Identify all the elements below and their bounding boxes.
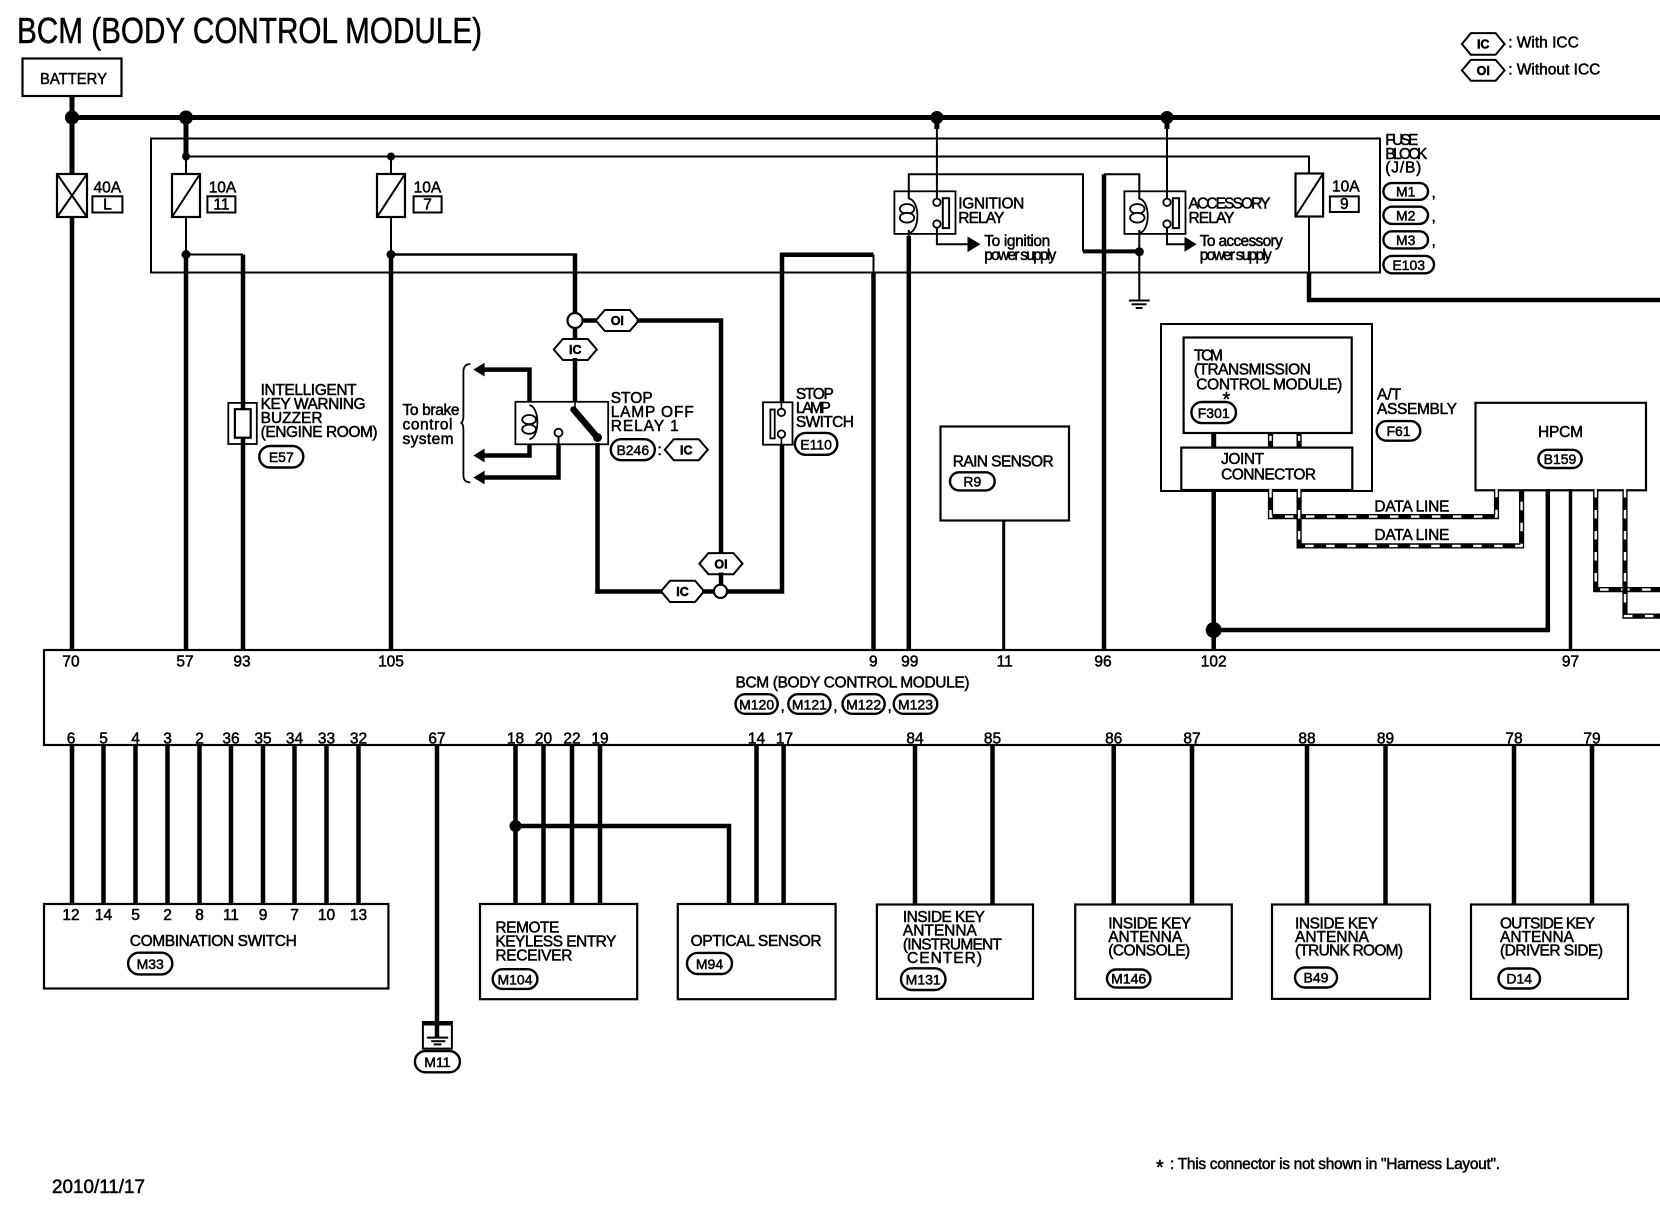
relay contact arm B246	[555, 402, 603, 444]
hexagon OI bottom	[699, 553, 742, 574]
svg-text:9: 9	[869, 654, 878, 671]
label 40A L	[92, 180, 122, 214]
hexagon IC at B246	[665, 439, 708, 460]
outside key antenna driver side box	[1471, 905, 1628, 999]
wire OI bypass down	[637, 321, 722, 555]
accessory relay	[1124, 191, 1185, 234]
wire ignition contact to arrow	[937, 228, 968, 245]
svg-text:2: 2	[163, 907, 172, 924]
wire BCM pin 78	[1512, 745, 1517, 905]
svg-text:9: 9	[1340, 196, 1349, 213]
data line JC to HPCM 2	[1299, 489, 1522, 546]
wire BCM pin 36	[229, 745, 234, 905]
svg-text:power supply: power supply	[1200, 247, 1272, 264]
wire relay coil bottom to brake arrow 2	[484, 444, 530, 455]
wire BCM pin 79	[1590, 745, 1595, 905]
svg-text:,: ,	[1432, 185, 1436, 202]
svg-text:7: 7	[290, 907, 299, 924]
connector M104	[493, 969, 538, 989]
brace to brake control system	[460, 364, 470, 482]
svg-text:,: ,	[1432, 209, 1436, 226]
label IGNITION RELAY	[958, 196, 1024, 227]
junction dot battery bus	[65, 111, 79, 125]
svg-text:36: 36	[222, 730, 239, 747]
svg-text:70: 70	[62, 654, 80, 671]
svg-text:,: ,	[888, 698, 892, 715]
svg-text:COMBINATION SWITCH: COMBINATION SWITCH	[130, 933, 297, 950]
svg-text:5: 5	[131, 907, 140, 924]
wire branch to optical sensor	[516, 826, 730, 905]
wire BCM pin 4	[133, 745, 138, 905]
wire bus to ignition relay contact	[934, 118, 939, 130]
svg-text:R9: R9	[963, 473, 981, 489]
data line stub TCM to JC 2	[1296, 433, 1301, 448]
svg-text:DATA LINE: DATA LINE	[1374, 499, 1449, 516]
wire HPCM to BCM pin 97	[1569, 489, 1573, 651]
svg-text:67: 67	[428, 730, 445, 747]
svg-text:4: 4	[131, 730, 140, 747]
label inside key antenna console	[1108, 916, 1191, 960]
svg-text:3: 3	[163, 730, 172, 747]
svg-text:D14: D14	[1506, 971, 1532, 987]
wire stop lamp switch top to pin 9 rail	[782, 255, 874, 403]
wire BCM pin 3	[165, 745, 170, 905]
junction dot relay coils ground	[1135, 247, 1144, 256]
label ACCESSORY RELAY	[1189, 196, 1271, 227]
hexagon OI top	[596, 310, 639, 331]
legend OI symbol	[1462, 60, 1600, 81]
wire to BCM pin 57	[184, 255, 189, 652]
wire BCM pin 89	[1383, 745, 1388, 905]
svg-text:10A: 10A	[414, 180, 442, 197]
wire rail to fuse 7	[390, 157, 392, 176]
svg-text:M122: M122	[846, 696, 881, 712]
label inside key antenna instrument center	[903, 909, 1003, 967]
svg-text:M104: M104	[497, 971, 532, 987]
svg-text:M121: M121	[792, 696, 827, 712]
svg-text:5: 5	[99, 730, 108, 747]
arrow to ignition power supply	[968, 237, 981, 253]
svg-text:2010/11/17: 2010/11/17	[52, 1177, 145, 1198]
connector M122	[843, 694, 892, 715]
wire ignition coil net to ground junction	[1083, 249, 1139, 253]
svg-text:IC: IC	[569, 343, 582, 357]
wire HPCM to node 102	[1214, 489, 1548, 630]
label FUSE BLOCK (J/B)	[1385, 132, 1428, 177]
svg-text:ASSEMBLY: ASSEMBLY	[1377, 401, 1457, 418]
svg-text:9: 9	[259, 907, 268, 924]
wire to BCM pin 105	[389, 255, 394, 652]
svg-text:M33: M33	[137, 956, 164, 972]
svg-text:10A: 10A	[1332, 179, 1360, 196]
wire drop to OI/IC split	[573, 255, 578, 314]
svg-text:87: 87	[1183, 730, 1200, 747]
label 10A 11	[207, 180, 237, 214]
label joint connector	[1221, 451, 1316, 484]
wire BCM pin 18 to keyless receiver	[513, 745, 518, 905]
svg-text:105: 105	[378, 654, 404, 671]
svg-text:M146: M146	[1111, 971, 1146, 987]
remote keyless entry receiver box	[480, 904, 637, 999]
wire accessory coil top to BCM pin 96	[1104, 174, 1139, 199]
svg-text:18: 18	[507, 730, 524, 747]
label A/T assembly	[1377, 387, 1457, 418]
arrow to brake control 3	[473, 471, 484, 485]
svg-text:: This connector is not shown: : This connector is not shown in "Harnes…	[1170, 1156, 1500, 1173]
svg-text:(CONSOLE): (CONSOLE)	[1108, 943, 1190, 960]
wire relay coil top to brake arrow 1	[484, 370, 530, 402]
svg-text:M1: M1	[1396, 184, 1416, 200]
svg-text:40A: 40A	[94, 180, 122, 197]
svg-text:33: 33	[318, 730, 335, 747]
svg-text::: :	[658, 442, 662, 459]
svg-text:DATA LINE: DATA LINE	[1374, 527, 1449, 544]
connector M11	[415, 1051, 460, 1072]
footnote harness layout	[1156, 1156, 1500, 1179]
svg-text:IC: IC	[676, 585, 689, 599]
connector M120	[736, 694, 785, 715]
svg-text:F301: F301	[1198, 405, 1230, 421]
ground M11	[423, 1022, 452, 1049]
svg-text:(DRIVER SIDE): (DRIVER SIDE)	[1500, 943, 1603, 960]
svg-text:11: 11	[213, 197, 229, 214]
svg-text:10A: 10A	[209, 180, 237, 197]
wire bus drop to fuse rail	[184, 118, 189, 159]
ground relay coils	[1129, 301, 1150, 309]
A/T assembly outer box	[1161, 324, 1372, 491]
svg-text:86: 86	[1105, 730, 1122, 747]
wire IC hexagon to node	[702, 589, 714, 594]
svg-text:,: ,	[781, 698, 785, 715]
svg-text:89: 89	[1377, 730, 1394, 747]
fuse 7 10A	[377, 174, 405, 217]
label remote keyless entry receiver	[495, 920, 616, 965]
svg-text:*: *	[1156, 1157, 1164, 1179]
connector M3	[1383, 231, 1435, 250]
joint connector box	[1181, 448, 1352, 490]
connector M131	[901, 968, 946, 990]
svg-text:HPCM: HPCM	[1538, 424, 1583, 441]
connector E57	[259, 446, 303, 468]
wire ignition coil top net	[909, 174, 1083, 251]
wire BCM pin 17	[781, 745, 786, 905]
svg-text:M11: M11	[424, 1054, 450, 1070]
wire BCM pin 20	[541, 745, 546, 905]
wire rail to fuse 11	[185, 157, 187, 176]
svg-text:11: 11	[997, 654, 1013, 671]
svg-text:(TRUNK ROOM): (TRUNK ROOM)	[1295, 943, 1403, 960]
svg-text:20: 20	[535, 730, 553, 747]
svg-text:85: 85	[984, 730, 1001, 747]
connector M123	[894, 694, 938, 714]
label TCM transmission control module	[1194, 348, 1342, 412]
svg-text:14: 14	[748, 730, 766, 747]
connector D14	[1499, 969, 1541, 989]
connector M33	[128, 953, 172, 975]
wire fuse rail	[186, 157, 1309, 176]
stop lamp off relay 1 box	[515, 402, 608, 445]
optical sensor box	[678, 904, 836, 999]
svg-text:34: 34	[286, 730, 304, 747]
svg-text:12: 12	[62, 907, 79, 924]
connector B49	[1295, 968, 1337, 988]
svg-text:M94: M94	[696, 956, 723, 972]
relay coil B246	[522, 405, 537, 439]
svg-text:,: ,	[833, 698, 837, 715]
svg-text:22: 22	[563, 730, 580, 747]
junction dot node 102	[1206, 622, 1222, 638]
svg-text:,: ,	[1432, 233, 1436, 250]
svg-text:OI: OI	[611, 314, 624, 328]
svg-text:: Without ICC: : Without ICC	[1508, 61, 1600, 78]
wire node to stop lamp switch	[727, 444, 782, 592]
svg-text:84: 84	[906, 730, 924, 747]
wire fuse 9 output to E103 right	[1309, 273, 1660, 301]
svg-text:2: 2	[195, 730, 204, 747]
svg-text:10: 10	[318, 907, 336, 924]
data line JC to HPCM 1	[1271, 489, 1497, 517]
wire main battery bus	[72, 115, 1660, 120]
svg-text:RELAY: RELAY	[958, 210, 1004, 227]
svg-text:CONNECTOR: CONNECTOR	[1221, 467, 1316, 484]
svg-text:OI: OI	[1477, 64, 1490, 78]
wire BCM pin 2	[197, 745, 202, 905]
arrow to brake control 1	[473, 363, 484, 377]
wire BCM pin 85	[990, 745, 995, 905]
wire BCM pin 22	[570, 745, 575, 905]
svg-text:BCM (BODY CONTROL MODULE): BCM (BODY CONTROL MODULE)	[736, 675, 970, 692]
svg-text:OPTICAL SENSOR: OPTICAL SENSOR	[691, 933, 822, 950]
wire OI bypass right	[583, 318, 598, 323]
wire accessory contact to arrow	[1167, 228, 1186, 245]
fuse block J/B outline	[151, 139, 1380, 273]
svg-text:JOINT: JOINT	[1221, 451, 1265, 468]
label 10A 9	[1330, 179, 1360, 213]
svg-text:14: 14	[95, 907, 113, 924]
wire BCM pin 6 to combination switch	[70, 745, 75, 905]
wire IC path down	[573, 328, 578, 341]
junction dot below fuse 11	[182, 250, 191, 259]
wire BCM pin 67 to ground	[435, 745, 440, 1023]
wire ignition coil bottom to BCM pin 99	[908, 230, 910, 238]
svg-text:B159: B159	[1544, 451, 1577, 467]
svg-text:35: 35	[254, 730, 271, 747]
svg-text:F61: F61	[1386, 423, 1410, 439]
svg-text:CONTROL MODULE): CONTROL MODULE)	[1196, 377, 1342, 394]
svg-text:RELAY: RELAY	[1189, 210, 1235, 227]
svg-text:RELAY 1: RELAY 1	[611, 418, 679, 435]
inside key antenna console box	[1075, 905, 1232, 999]
wire IC hexagon to relay	[573, 358, 578, 403]
connector E103	[1383, 256, 1434, 273]
fuse 9 10A	[1296, 174, 1324, 217]
svg-text:RECEIVER: RECEIVER	[495, 948, 572, 965]
wire accessory coil bottom to ground	[1138, 230, 1140, 300]
combination switch box	[44, 904, 388, 989]
node circle OI/IC merge	[714, 585, 727, 598]
junction dot bus at ignition relay feed	[930, 111, 943, 124]
wire to BCM pin 93 through buzzer	[241, 255, 246, 652]
svg-text:57: 57	[176, 654, 193, 671]
wire fuse 7 to junction	[390, 216, 392, 256]
label STOP LAMP OFF RELAY 1	[611, 390, 694, 435]
node circle OI/IC split	[568, 313, 583, 328]
junction dot bus at accessory relay feed	[1161, 111, 1174, 124]
svg-text:32: 32	[350, 730, 367, 747]
junction dot rail at fuse 11	[182, 153, 190, 161]
HPCM box	[1476, 403, 1647, 491]
legend IC symbol	[1462, 33, 1579, 55]
label STOP LAMP SWITCH	[796, 386, 854, 431]
svg-text:B49: B49	[1304, 970, 1329, 986]
wire relay output to IC hexagon	[595, 589, 663, 594]
svg-text:11: 11	[223, 907, 239, 924]
svg-text:88: 88	[1298, 730, 1315, 747]
intelligent key warning buzzer	[228, 403, 256, 444]
svg-text:8: 8	[195, 907, 204, 924]
wire BCM pin 84	[913, 745, 918, 905]
wire BCM pin 33	[324, 745, 329, 905]
wire BCM pin 32	[356, 745, 361, 905]
wire BCM pin 88	[1305, 745, 1310, 905]
svg-text:B246: B246	[616, 442, 649, 458]
svg-text:6: 6	[67, 730, 76, 747]
fuse 11 10A	[172, 174, 200, 217]
svg-text:79: 79	[1583, 730, 1600, 747]
wire BCM pin 34	[292, 745, 297, 905]
svg-text:M123: M123	[898, 696, 933, 712]
data line stub TCM to JC 1	[1268, 433, 1273, 448]
battery	[23, 59, 122, 97]
BCM box	[44, 650, 1660, 745]
svg-text:IC: IC	[1477, 38, 1490, 52]
svg-text:SWITCH: SWITCH	[796, 414, 854, 431]
connector M1	[1383, 183, 1435, 201]
svg-text:78: 78	[1505, 730, 1522, 747]
svg-text:BATTERY: BATTERY	[40, 71, 107, 88]
label outside key antenna driver side	[1500, 916, 1603, 960]
label To accessory power supply	[1200, 233, 1283, 264]
wire BCM pin 5	[101, 745, 106, 905]
connector F61	[1377, 421, 1421, 441]
connector M146	[1107, 970, 1150, 988]
svg-text:102: 102	[1201, 654, 1227, 671]
stop lamp switch E110	[763, 402, 793, 444]
inside key antenna instrument center box	[877, 905, 1033, 999]
svg-text:(J/B): (J/B)	[1385, 160, 1421, 177]
TCM box	[1184, 338, 1352, 434]
wire rain sensor to BCM pin 11	[1002, 521, 1005, 652]
junction dot pin 18 branch	[510, 820, 522, 832]
connector F301	[1191, 402, 1236, 423]
wire fuse 9 down	[1308, 217, 1310, 274]
svg-text:19: 19	[591, 730, 608, 747]
svg-text:M2: M2	[1396, 208, 1416, 224]
svg-text:: With ICC: : With ICC	[1508, 35, 1579, 52]
rain sensor	[941, 427, 1070, 521]
arrow to accessory power supply	[1185, 237, 1197, 252]
wire branch to stop lamp off relay	[391, 253, 577, 256]
svg-text:E57: E57	[269, 449, 294, 465]
wire BCM pin 19	[598, 745, 603, 905]
wire to BCM pin 9	[871, 273, 876, 652]
svg-text:13: 13	[350, 907, 367, 924]
wire battery to bus	[70, 96, 75, 177]
label To ignition power supply	[984, 233, 1056, 264]
svg-text:M131: M131	[906, 972, 941, 988]
connector R9	[950, 472, 995, 490]
wire fuse 40A to BCM pin 70	[70, 216, 75, 651]
data line HPCM exit right 2	[1625, 489, 1660, 616]
junction dot bus at fuse 11 feed	[179, 111, 193, 125]
svg-text:96: 96	[1094, 654, 1111, 671]
label intelligent key warning buzzer	[261, 382, 378, 441]
svg-text:E110: E110	[800, 437, 832, 453]
wire BCM pin 35	[261, 745, 266, 905]
data line HPCM exit right 1	[1596, 489, 1660, 590]
hexagon IC top	[554, 339, 597, 360]
connector B246	[611, 439, 662, 460]
label 10A 7	[414, 180, 442, 214]
svg-text:(ENGINE ROOM): (ENGINE ROOM)	[261, 424, 378, 441]
svg-text:E103: E103	[1392, 257, 1425, 273]
connector M121	[788, 694, 837, 715]
wire OI hexagon to node	[719, 573, 724, 586]
svg-text:BCM (BODY CONTROL MODULE): BCM (BODY CONTROL MODULE)	[17, 10, 482, 51]
svg-text:system: system	[403, 431, 454, 448]
wire fuse 11 to junction	[185, 216, 187, 256]
wire BCM pin 87	[1190, 745, 1195, 905]
svg-text:RAIN SENSOR: RAIN SENSOR	[953, 454, 1054, 471]
svg-text:M3: M3	[1396, 232, 1416, 248]
junction dot below fuse 7	[387, 250, 396, 259]
fuse 40A	[57, 174, 87, 217]
wire relay NO contact to brake arrow 3	[484, 444, 559, 477]
svg-text:7: 7	[423, 197, 432, 214]
svg-text:97: 97	[1562, 654, 1579, 671]
svg-text:M120: M120	[739, 696, 774, 712]
connector M2	[1383, 207, 1435, 226]
svg-text:IC: IC	[680, 443, 693, 457]
wire branch to buzzer	[186, 254, 243, 256]
arrow to brake control 2	[473, 449, 484, 463]
wire BCM pin 86	[1111, 745, 1116, 905]
svg-text:17: 17	[776, 730, 793, 747]
svg-text:OI: OI	[714, 557, 727, 571]
svg-text:power supply: power supply	[984, 247, 1056, 264]
connector E110	[795, 433, 837, 455]
label To brake control system	[403, 402, 460, 448]
svg-text:93: 93	[233, 654, 250, 671]
svg-text:CENTER): CENTER)	[907, 950, 982, 967]
label inside key antenna trunk room	[1295, 916, 1403, 960]
wire relay output down	[595, 443, 600, 594]
wire TCM to BCM pin 102	[1211, 490, 1216, 651]
connector M94	[687, 953, 732, 974]
wire BCM pin 14 to optical sensor	[754, 745, 759, 905]
wire bus to accessory relay contact	[1165, 118, 1170, 130]
svg-text:L: L	[103, 197, 112, 214]
ignition relay	[894, 191, 955, 234]
svg-text:99: 99	[901, 654, 918, 671]
connector B159	[1538, 450, 1581, 468]
inside key antenna trunk room box	[1272, 905, 1430, 999]
wire TCM to joint connector	[1211, 433, 1216, 448]
hexagon IC bottom	[661, 581, 704, 602]
junction dot rail at fuse 7	[387, 153, 395, 161]
